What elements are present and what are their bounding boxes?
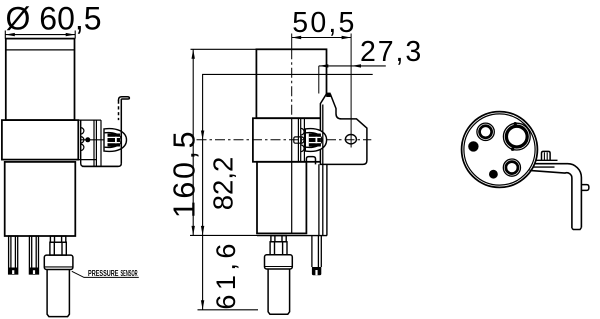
- port big top-right: [503, 123, 530, 150]
- top extension line: [191, 48, 327, 50]
- svg-text:82,2: 82,2: [208, 157, 239, 211]
- bracket foot bottom: [82, 163, 121, 166]
- horizontal centerline through connector and bracket hole: [197, 139, 372, 141]
- leader line to label: [72, 271, 139, 277]
- bottom body extension line: [190, 234, 257, 236]
- terminal pin 1: [9, 236, 18, 274]
- lower body (front view): [5, 162, 76, 236]
- pressure sensor cylinder (front view): [47, 270, 69, 317]
- svg-text:27,3: 27,3: [360, 36, 423, 68]
- pressure sensor cylinder (side view): [268, 269, 290, 314]
- pressure sensor collar (side view): [265, 255, 293, 269]
- dimension line 27,3: [319, 64, 386, 93]
- svg-text:61,6: 61,6: [211, 239, 241, 310]
- terminal pin 2: [29, 236, 38, 274]
- body right edge below bracket: [326, 164, 328, 235]
- stud with black dot: [85, 137, 90, 142]
- black stud bottom: [489, 170, 498, 179]
- bracket arm bottom end: [572, 228, 582, 230]
- connector latch small rect: [294, 137, 302, 143]
- connector rib block: [108, 134, 121, 147]
- svg-text:160,5: 160,5: [167, 129, 201, 218]
- mounting band (side view): [253, 118, 331, 162]
- sensor bottom extension line: [198, 309, 259, 311]
- pressure sensor collar (front view): [44, 255, 73, 269]
- bracket L-arm outer edge: [535, 164, 582, 228]
- pressure sensor hex nut (front view): [50, 242, 66, 255]
- vertical centerline of body: [291, 34, 293, 50]
- extension line to bracket hole: [350, 34, 352, 148]
- lower body (side view): [257, 162, 306, 234]
- drier top cylinder (side view): [256, 49, 326, 118]
- refrigerant tube upper (side view): [319, 105, 323, 236]
- D-connector (side view): [305, 129, 326, 152]
- connector rib block (side view): [309, 134, 321, 147]
- pressure sensor stub (front view): [50, 236, 65, 242]
- chain dimension line 82,2 / 61,6: [201, 74, 373, 309]
- refrigerant tube lower (side view): [312, 236, 321, 267]
- drier top cylinder (front view): [6, 39, 75, 121]
- bracket strip edge-on with top hook: [119, 97, 130, 164]
- dimension line 50,5: [292, 36, 351, 39]
- bracket foot step: [306, 157, 315, 165]
- bracket clamp lines near circle: [534, 160, 558, 167]
- dimension line 160,5: [192, 49, 195, 235]
- bracket apex black square: [326, 93, 330, 97]
- mounting band (front view): [2, 120, 78, 160]
- bracket tab (top view): [542, 151, 551, 160]
- bracket L-arm inner edge: [530, 170, 572, 228]
- pressure sensor stub (side view): [271, 236, 286, 242]
- svg-text:SENSOR: SENSOR: [121, 268, 138, 278]
- svg-text:PRESSURE: PRESSURE: [88, 268, 119, 278]
- weld seam line: [6, 49, 75, 51]
- connector plate lines right of band: [78, 120, 118, 166]
- svg-text:Ø 60,5: Ø 60,5: [6, 1, 102, 37]
- bracket hole: [345, 135, 356, 144]
- drier canister outer circle (top view): [462, 112, 538, 188]
- tube black tip: [312, 267, 321, 275]
- mounting bracket plate (side view): [320, 94, 367, 164]
- lower body outer bottom line: [257, 235, 327, 237]
- scallop bumps (side view): [298, 118, 304, 162]
- dimension line Ø 60,5: [5, 31, 75, 39]
- port top-left: [477, 123, 494, 140]
- scallop bumps on connector plate: [81, 128, 84, 151]
- pressure sensor hex nut (side view): [270, 242, 287, 255]
- D-connector (front view): [104, 129, 127, 152]
- canister inner circle: [464, 114, 535, 185]
- port bottom: [503, 159, 520, 176]
- black stud left: [468, 141, 478, 151]
- stub on right of arm: [581, 185, 589, 191]
- svg-text:50,5: 50,5: [292, 7, 356, 39]
